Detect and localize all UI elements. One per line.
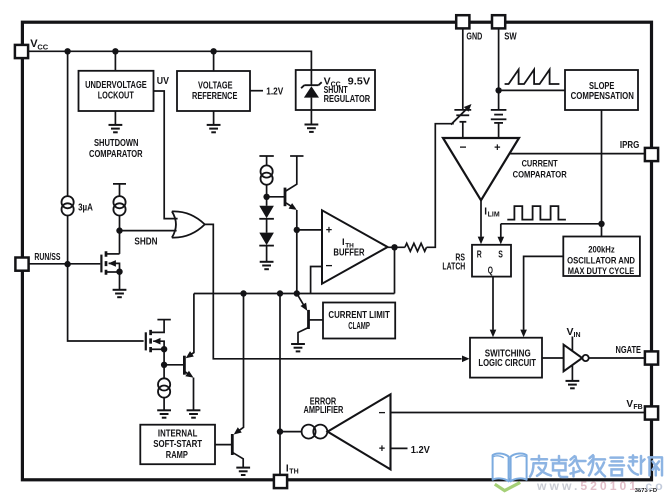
wire 3uA branch lower: [67, 216, 69, 265]
watermark chinese text 家电维修资料网: [530, 455, 662, 477]
svg-text:CLAMP: CLAMP: [348, 320, 370, 332]
block VCC 9.5V SHUNT REGULATOR U3: [296, 70, 375, 110]
svg-text:S: S: [498, 250, 503, 261]
ground below Q3: [187, 410, 201, 417]
wire oscillator to switching logic: [524, 256, 564, 329]
wire IPRG net: [509, 153, 644, 155]
svg-text:GND: GND: [466, 32, 482, 43]
transistor Q1 NPN buffer bias: [267, 156, 304, 230]
svg-text:TH: TH: [289, 469, 298, 476]
block SLOPE COMPENSATION U7: [565, 70, 638, 110]
battery source B2: [491, 110, 507, 123]
sawtooth waveform: [505, 70, 560, 85]
svg-text:REFERENCE: REFERENCE: [192, 90, 237, 102]
wire UVL ground stem: [114, 111, 116, 125]
ground below UVL: [109, 125, 123, 132]
wire M2 to current source I4: [163, 365, 165, 379]
svg-text:NGATE: NGATE: [616, 345, 642, 356]
ground below driver: [566, 381, 580, 388]
svg-text:COMPENSATION: COMPENSATION: [571, 90, 634, 102]
svg-text:SHDN: SHDN: [134, 236, 157, 247]
node SHDN: [116, 227, 122, 233]
wire 3uA branch upper: [67, 51, 69, 196]
wire resistor to comparator minus: [427, 124, 454, 248]
svg-text:COMPARATOR: COMPARATOR: [513, 170, 567, 180]
pin IPRG: [645, 148, 658, 161]
comparator U6 current comparator: [443, 138, 519, 200]
block UNDERVOLTAGE LOCKOUT U1: [79, 71, 154, 111]
wire buffer feedback: [311, 247, 395, 293]
wire bus to clamp NPN collector: [188, 294, 194, 357]
ground below VREF: [207, 125, 221, 132]
wire bus down to ITH pin: [279, 294, 281, 476]
OR gate U4 shutdown logic: [172, 211, 205, 237]
wire UV net: [154, 91, 178, 219]
svg-text:LATCH: LATCH: [442, 261, 465, 272]
op-amp U5 ITH buffer: [322, 210, 388, 283]
wire ITH bus: [194, 293, 395, 295]
wire SHDN node: [120, 216, 177, 254]
wire VREF ground stem: [213, 111, 215, 125]
transistor Q4 soft-start PNP: [215, 434, 243, 468]
svg-text:COMPARATOR: COMPARATOR: [89, 148, 143, 160]
svg-text:V: V: [626, 399, 633, 410]
transistor Q3 soft-start clamp NPN: [164, 356, 193, 411]
block 200kHz oscillator U9: [563, 237, 640, 277]
wire buffer output: [388, 246, 405, 248]
block RS latch U8: [472, 245, 511, 277]
block VOLTAGE REFERENCE U2: [177, 71, 250, 111]
wire slope comp to oscillator: [601, 110, 603, 237]
wire SW node to slope compensation: [499, 89, 565, 91]
wire SW pin down: [498, 28, 500, 110]
svg-text:200kHz: 200kHz: [588, 244, 615, 254]
block CURRENT LIMIT CLAMP U10: [323, 303, 395, 339]
wire VCC rail: [28, 51, 311, 70]
ground below shunt: [305, 125, 319, 132]
wire buffer plus branch: [296, 230, 298, 294]
svg-text:LOCKOUT: LOCKOUT: [98, 90, 134, 102]
wire GND pin to ramp source: [462, 28, 464, 109]
ground below I4: [157, 410, 171, 417]
wire driver ground: [571, 365, 573, 381]
svg-text:IN: IN: [574, 332, 581, 339]
pin SW: [492, 15, 505, 28]
svg-text:BUFFER: BUFFER: [333, 247, 364, 258]
svg-text:FB: FB: [633, 404, 642, 411]
svg-text:RUN/SS: RUN/SS: [34, 252, 60, 263]
svg-text:3µA: 3µA: [78, 202, 93, 213]
ground below Q2: [291, 344, 305, 351]
svg-text:1.2V: 1.2V: [411, 445, 431, 456]
resistor R1: [405, 243, 427, 251]
wire 1.2V to plus input: [391, 447, 408, 449]
svg-text:−: −: [325, 259, 332, 273]
WATERMARK: [493, 453, 665, 493]
transistor Q2 clamp PNP: [297, 294, 323, 345]
pin GND: [456, 15, 469, 28]
pin NGATE: [645, 351, 658, 364]
svg-text:+: +: [494, 142, 500, 154]
wire VREF drop: [213, 51, 215, 71]
wire vcc stub current source 2: [113, 184, 126, 196]
wire S net: [501, 224, 602, 237]
node VCC rail junctions: [64, 48, 70, 54]
pin RUN/SS: [15, 258, 28, 271]
node RUN/SS: [64, 261, 70, 267]
wire Q output to switching logic: [492, 277, 494, 330]
wire VFB net: [391, 412, 645, 414]
wire 1.2V stub: [250, 90, 263, 92]
svg-text:REGULATOR: REGULATOR: [324, 93, 371, 105]
ground below diodes: [260, 262, 274, 269]
current source I3: [261, 165, 273, 184]
svg-text:Q: Q: [488, 265, 493, 276]
watermark book icon: [493, 453, 527, 481]
diode D1: [266, 197, 268, 206]
zener diode D3 shunt: [301, 70, 322, 125]
wire UVL drop: [114, 51, 116, 71]
svg-text:UV: UV: [157, 76, 169, 87]
pin VCC: [15, 45, 28, 58]
error amp output gm circles: [302, 425, 328, 439]
current source I4: [158, 378, 170, 397]
block SWITCHING LOGIC CIRCUIT U13: [470, 338, 542, 378]
wire VIN to driver: [571, 337, 573, 352]
svg-text:R: R: [477, 250, 482, 261]
vcc stub above current source I3: [259, 156, 273, 197]
op-amp U12 error amplifier: [328, 394, 391, 469]
svg-text:www.520101.com: www.520101.com: [536, 479, 665, 493]
svg-text:CC: CC: [37, 42, 48, 51]
ground below Q4: [236, 468, 250, 475]
current source I1 3uA: [62, 196, 74, 215]
svg-text:CURRENT: CURRENT: [522, 159, 558, 169]
svg-text:+: +: [326, 224, 332, 236]
diode D2: [266, 219, 268, 233]
svg-text:OSCILLATOR AND: OSCILLATOR AND: [567, 255, 635, 265]
wire comparator output to R input: [480, 200, 482, 237]
watermark green check: [495, 482, 520, 490]
svg-text:V: V: [567, 326, 574, 338]
svg-text:SW: SW: [504, 32, 517, 43]
svg-text:IPRG: IPRG: [620, 140, 640, 151]
current source I2: [113, 196, 125, 215]
variable ramp source B1: [451, 107, 471, 124]
svg-text:LIM: LIM: [488, 212, 500, 219]
wire error amp output to ITH: [280, 431, 302, 433]
svg-text:MAX DUTY CYCLE: MAX DUTY CYCLE: [568, 266, 635, 276]
svg-text:1.2V: 1.2V: [266, 87, 283, 98]
transistor M1 shutdown NMOS: [101, 251, 119, 289]
block INTERNAL SOFT-START RAMP U11: [140, 425, 215, 465]
pin VFB: [645, 406, 658, 419]
square wave waveform: [507, 206, 566, 220]
transistor M2 soft-start PMOS: [146, 320, 171, 365]
wire RUN/SS to NMOS gate: [29, 263, 101, 265]
wire OR output to switching logic: [205, 224, 462, 358]
driver U14 gate driver: [564, 345, 589, 372]
ground below M1: [113, 290, 127, 297]
svg-text:+: +: [379, 443, 385, 455]
label SHUTDOWN COMPARATOR: [89, 137, 143, 160]
wire bus down to soft-start PNP: [236, 294, 244, 433]
svg-text:9.5V: 9.5V: [348, 75, 371, 87]
wire switching logic to driver: [542, 357, 563, 359]
svg-text:−: −: [378, 405, 385, 419]
svg-text:RAMP: RAMP: [166, 449, 188, 461]
wire RUN/SS down to PMOS gate: [68, 264, 144, 341]
svg-text:AMPLIFIER: AMPLIFIER: [304, 405, 344, 416]
pin ITH: [274, 475, 287, 488]
svg-text:LOGIC CIRCUIT: LOGIC CIRCUIT: [478, 357, 536, 369]
wire driver to NGATE: [589, 357, 645, 359]
wire to buffer plus input: [297, 229, 322, 231]
svg-text:−: −: [459, 140, 466, 154]
